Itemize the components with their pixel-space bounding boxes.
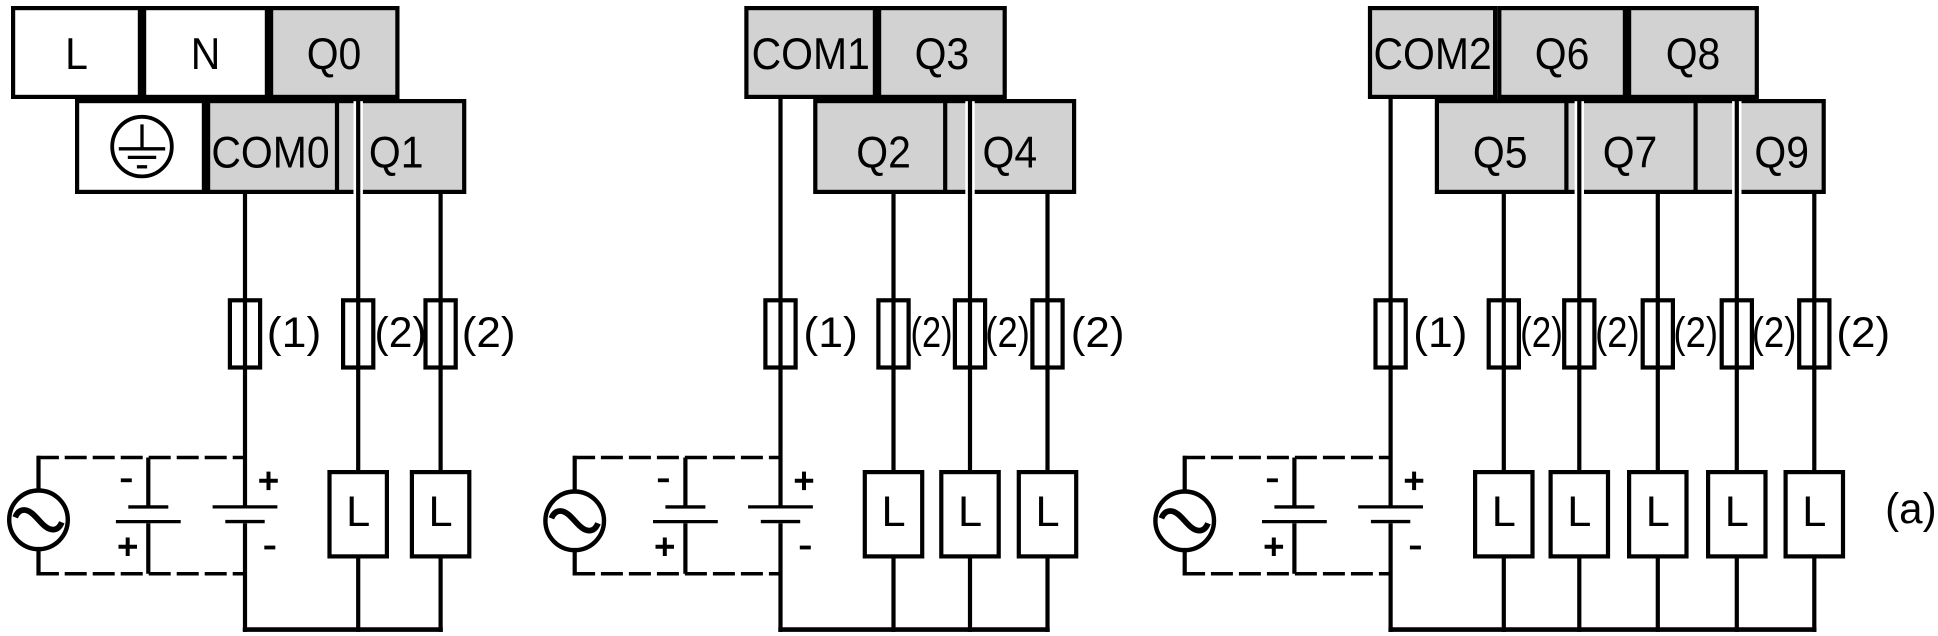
load L at 1047 [1019,472,1076,556]
optional DC supply battery stem bottom [1292,523,1296,574]
plus label of DC source [1405,479,1424,483]
wire COM battery to bus [1388,523,1392,632]
svg-text:L: L [346,488,370,536]
dashed AC supply box bottom edge [1183,572,1205,576]
plus label of DC source [795,479,813,483]
DC source long plate (pos) [1358,505,1423,508]
white wire channel through row2 (Q8 wire) [1732,101,1741,196]
svg-text:Q1: Q1 [369,128,424,178]
optional DC supply battery short plate (neg) [1274,505,1314,508]
fuse F-1390 [1376,300,1406,367]
svg-text:COM0: COM0 [211,128,329,178]
svg-text:Q4: Q4 [982,128,1037,178]
minus label of dashed battery [1267,478,1278,482]
terminal row2 slab Q5/Q7/Q9 [1437,101,1824,192]
svg-text:(2): (2) [1752,309,1797,356]
wire COM battery to bus [243,523,247,632]
svg-text:Q9: Q9 [1754,128,1809,178]
load L at 1657 [1629,472,1686,556]
wire Q output 970 [968,97,972,472]
AC source G574 [545,492,604,551]
dashed box left edge lower segment [1183,548,1187,575]
svg-text:(2): (2) [1071,309,1125,356]
divider Q2|Q4 [943,99,947,194]
svg-text:COM2: COM2 [1373,29,1491,79]
svg-text:(2): (2) [1673,309,1718,356]
svg-text:L: L [1646,488,1670,536]
svg-text:L: L [1725,488,1749,536]
svg-text:(1): (1) [1413,309,1467,357]
load L at 358 [330,472,387,556]
wire load 440 to bus [439,557,443,632]
plus label of dashed battery [119,545,138,549]
wire COM vertical [1388,97,1392,506]
svg-text:(a): (a) [1885,485,1937,533]
terminal N box [144,8,267,97]
divider COM0|Q1 [335,99,339,194]
svg-text:(2): (2) [1520,310,1563,357]
wire load 1736 to bus [1735,557,1739,632]
load L at 1503 [1475,472,1532,556]
minus label of DC source [264,546,275,550]
svg-text:N: N [191,29,221,79]
svg-text:Q0: Q0 [307,29,362,79]
bottom return bus wire [778,627,1049,632]
svg-text:L: L [1802,488,1826,536]
wire load 1047 to bus [1045,557,1049,632]
minus label of dashed battery [658,478,669,482]
svg-text:Q3: Q3 [915,29,970,79]
fuse F-245 [230,300,260,367]
terminal COM2 box [1370,8,1495,97]
dashed AC supply box top edge [573,456,595,460]
svg-text:L: L [1035,488,1059,536]
wire load 1579 to bus [1577,557,1581,632]
svg-text:Q5: Q5 [1473,128,1528,178]
AC source G38 [9,491,68,550]
protective earth ground symbol [112,117,172,177]
wire Q output 1579 [1577,97,1581,472]
terminal Q0 box [271,8,397,97]
plus label of DC source [259,479,278,483]
dashed AC supply box bottom edge [573,572,595,576]
plus label of dashed battery [1265,545,1284,549]
optional DC supply battery short plate (neg) [665,505,705,508]
AC source G1184 [1155,492,1214,551]
svg-text:L: L [881,488,905,536]
svg-text:Q2: Q2 [856,128,911,178]
wire Q output 1814 [1812,192,1816,472]
wire Q output 1047 [1045,192,1049,472]
svg-text:(2): (2) [1595,309,1640,356]
optional DC supply battery short plate (neg) [128,505,168,508]
svg-text:(2): (2) [985,309,1030,356]
optional DC supply battery (dashed) stem top [1292,458,1296,506]
svg-text:Q7: Q7 [1603,128,1658,178]
wire Q output 440 [439,192,443,472]
terminal Q3 box [879,8,1005,97]
bottom return bus wire [243,627,443,632]
terminal L box [13,8,140,97]
wire Q output 1503 [1502,192,1506,472]
fuse F-780 [765,300,795,367]
divider Q5|Q7 [1564,99,1568,194]
dashed box left edge upper segment [1183,456,1187,494]
load L at 440 [412,472,469,556]
DC source short plate (neg) [1371,520,1410,523]
wire load 1657 to bus [1656,557,1660,632]
svg-text:(1): (1) [267,309,322,357]
dashed box left edge upper segment [36,456,40,493]
wire load 893 to bus [891,557,895,632]
svg-text:(2): (2) [375,309,427,357]
load L at 1736 [1708,472,1765,556]
DC source long plate (pos) [748,505,813,508]
terminal row2 slab Q2/Q4 [815,101,1074,192]
optional DC supply battery long plate (pos) [653,520,718,523]
wire load 358 to bus [356,557,360,632]
load L at 970 [941,472,998,556]
dashed box left edge lower segment [573,548,577,575]
svg-text:L: L [429,488,453,536]
svg-text:COM1: COM1 [752,29,870,79]
wire Q output 358 [356,97,360,472]
svg-text:(1): (1) [803,309,858,357]
DC source short plate (neg) [225,520,264,523]
wire load 970 to bus [968,557,972,632]
wire Q output 1736 [1735,97,1739,472]
wire COM vertical [778,97,782,506]
terminal row2 slab COM0/Q1 [208,101,464,192]
minus label of DC source [1410,546,1421,550]
wire COM vertical [243,192,247,506]
svg-text:L: L [958,488,982,536]
optional DC supply battery (dashed) stem top [146,458,150,506]
svg-text:Q6: Q6 [1535,29,1590,79]
white wire channel through row2 (Q6 wire) [1575,101,1584,196]
load L at 1814 [1786,472,1843,556]
bottom return bus wire [1388,627,1816,632]
dashed box left edge lower segment [36,547,40,575]
white wire channel through row2 (Q3 wire) [965,101,974,196]
optional DC supply battery stem bottom [146,523,150,574]
optional DC supply battery long plate (pos) [1262,520,1327,523]
terminal ground box [77,101,204,192]
terminal COM1 box [746,8,875,97]
wire load 1814 to bus [1812,557,1816,632]
dashed box left edge upper segment [573,456,577,494]
white wire channel through row2 (Q0 wire) [354,101,363,196]
load L at 893 [865,472,922,556]
svg-text:(2): (2) [462,309,516,356]
dashed AC supply box top edge [1183,456,1205,460]
svg-text:(2): (2) [1836,309,1890,356]
optional DC supply battery (dashed) stem top [683,458,687,506]
terminal Q6 box [1499,8,1625,97]
svg-text:(2): (2) [911,309,953,356]
optional DC supply battery long plate (pos) [116,520,181,523]
wire Q output 893 [891,192,895,472]
plus label of dashed battery [656,545,675,549]
load L at 1579 [1551,472,1608,556]
svg-text:L: L [1567,488,1591,536]
minus label of DC source [800,546,811,550]
optional DC supply battery stem bottom [683,523,687,574]
svg-text:Q8: Q8 [1666,29,1721,79]
DC source short plate (neg) [761,520,800,523]
wire load 1503 to bus [1502,557,1506,632]
DC source long plate (pos) [213,505,278,508]
terminal Q8 box [1629,8,1757,97]
svg-text:L: L [65,29,88,79]
wire Q output 1657 [1656,192,1660,472]
dashed AC supply box bottom edge [37,572,59,576]
divider Q7|Q9 [1693,99,1697,194]
wire COM battery to bus [778,523,782,632]
svg-text:L: L [1492,488,1516,536]
minus label of dashed battery [121,478,132,482]
dashed AC supply box top edge [37,456,59,460]
